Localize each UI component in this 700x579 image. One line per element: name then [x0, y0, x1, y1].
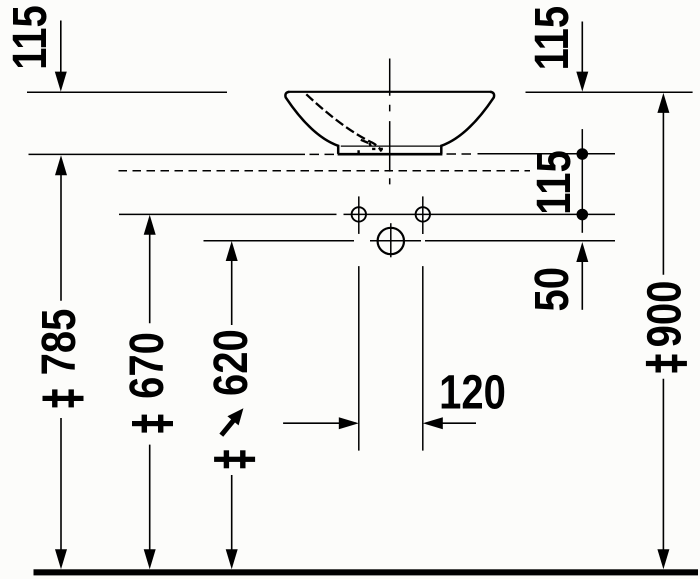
counter line hidden dashes right of basin: [447, 153, 476, 155]
dim 115 right label: [527, 150, 580, 215]
basin foot bottom line: [338, 153, 443, 156]
svg-text:115: 115: [527, 150, 580, 215]
dim 120 extension line left: [358, 266, 360, 451]
wall section line top right: [526, 91, 693, 93]
inner bowl hidden dashed curve: [306, 94, 381, 151]
faucet hole axis line: [119, 213, 615, 215]
basin rim line: [290, 91, 491, 93]
dim 785 line: [60, 165, 62, 560]
svg-text:120: 120: [439, 366, 506, 419]
faucet hole right circle: [416, 207, 430, 221]
vertical center chain line: [389, 59, 391, 185]
dim 120 right arrow: [426, 422, 476, 424]
dim 115 top left arrow: [60, 21, 62, 81]
wall section line top left: [27, 91, 227, 93]
dim 670 line: [149, 225, 151, 560]
counter line hidden dashes under basin left: [310, 153, 339, 155]
basin right wall: [441, 92, 494, 154]
dim 620 floor symbol: [214, 457, 255, 462]
basin foot top thin line: [341, 145, 440, 147]
dim 115 top right arrow: [581, 22, 583, 81]
svg-text:115: 115: [4, 5, 57, 70]
svg-text:670: 670: [120, 332, 173, 399]
dim 670 label: [120, 332, 173, 399]
drain recess hidden dashes: [359, 140, 383, 154]
dot lower: [577, 209, 589, 221]
basin left wall: [285, 92, 338, 154]
dim 900 line: [662, 103, 664, 560]
dim 50 arrow: [581, 252, 583, 310]
svg-text:785: 785: [32, 309, 85, 376]
dim 120 label: [439, 366, 506, 419]
dim 620 line: [231, 251, 233, 560]
svg-text:620: 620: [205, 329, 258, 396]
counter top line right: [478, 153, 616, 155]
svg-text:115: 115: [526, 6, 579, 71]
dim 785 label: [32, 309, 85, 376]
faucet hole left cross vertical: [358, 196, 360, 234]
faucet hole left circle: [352, 207, 366, 221]
dot upper: [577, 148, 589, 160]
drain hole circle: [378, 228, 404, 254]
dim 120 extension line right: [422, 266, 424, 451]
dim 50 label: [526, 267, 579, 311]
dim 115 top right label: [526, 6, 579, 71]
dim 670 floor symbol: [132, 421, 173, 426]
dim 115 top left label: [4, 5, 57, 70]
hidden dashed line below counter: [119, 170, 531, 172]
dim 120 left arrow: [283, 422, 356, 424]
faucet hole right cross vertical: [422, 196, 424, 234]
dim 115 right vertical line with dots: [581, 129, 583, 233]
counter top line left: [29, 153, 306, 155]
dim 785 floor symbol: [43, 396, 84, 401]
dim 620 slope arrow: [221, 420, 233, 435]
dim 900 label: [638, 281, 691, 348]
dim 900 floor symbol: [646, 361, 687, 366]
dim 620 label: [205, 329, 258, 396]
svg-text:900: 900: [638, 281, 691, 348]
svg-text:50: 50: [526, 267, 579, 311]
drain axis line: [204, 240, 616, 242]
floor bar: [34, 569, 699, 575]
drain hole cross vertical: [390, 223, 392, 257]
